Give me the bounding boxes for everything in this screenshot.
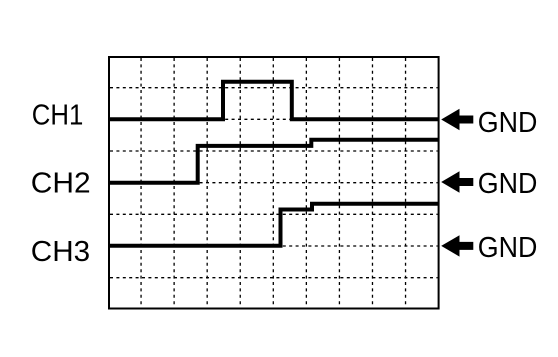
GND arrow 1 (CH1 ground level) [441, 109, 473, 130]
GND arrow 3 (CH3 ground level) [441, 235, 473, 256]
svg-text:CH2: CH2 [31, 168, 91, 200]
svg-text:CH3: CH3 [31, 236, 90, 268]
GND arrow 2 (CH2 ground level) [441, 171, 473, 192]
svg-text:GND: GND [478, 232, 538, 264]
svg-text:GND: GND [478, 168, 538, 200]
svg-text:CH1: CH1 [32, 99, 84, 131]
CH2 waveform trace (two steps) [108, 140, 439, 183]
graticule horizontal dashed lines [110, 88, 438, 278]
graticule vertical dashed lines [141, 58, 405, 308]
CH1 waveform trace (pulse) [108, 82, 439, 120]
svg-text:GND: GND [478, 107, 538, 139]
oscilloscope graticule frame [109, 57, 439, 309]
CH3 waveform trace (two steps) [108, 204, 439, 246]
